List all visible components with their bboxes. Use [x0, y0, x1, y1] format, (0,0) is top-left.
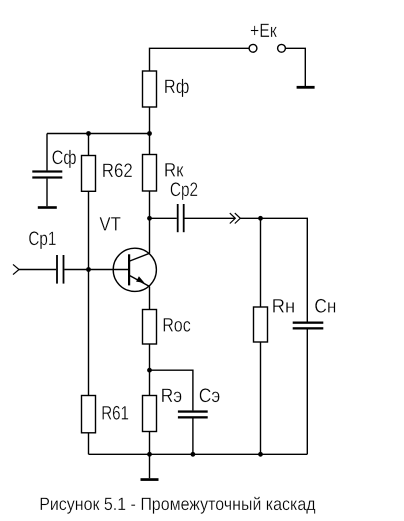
svg-text:Сэ: Сэ: [199, 385, 221, 407]
svg-text:Rф: Rф: [164, 76, 190, 98]
svg-text:VT: VT: [99, 213, 121, 235]
svg-text:R61: R61: [101, 402, 129, 424]
svg-text:Rн: Rн: [272, 296, 296, 318]
svg-text:Ср1: Ср1: [28, 228, 56, 250]
svg-text:Ср2: Ср2: [170, 179, 198, 201]
svg-text:Rэ: Rэ: [161, 385, 183, 407]
svg-text:Сф: Сф: [52, 147, 77, 169]
svg-text:Roc: Roc: [162, 314, 191, 336]
svg-text:R62: R62: [102, 160, 133, 182]
svg-text:+Ек: +Ек: [250, 20, 277, 42]
svg-text:Сн: Сн: [314, 296, 336, 318]
svg-text:Рисунок 5.1 - Промежуточный ка: Рисунок 5.1 - Промежуточный каскад: [39, 494, 316, 514]
